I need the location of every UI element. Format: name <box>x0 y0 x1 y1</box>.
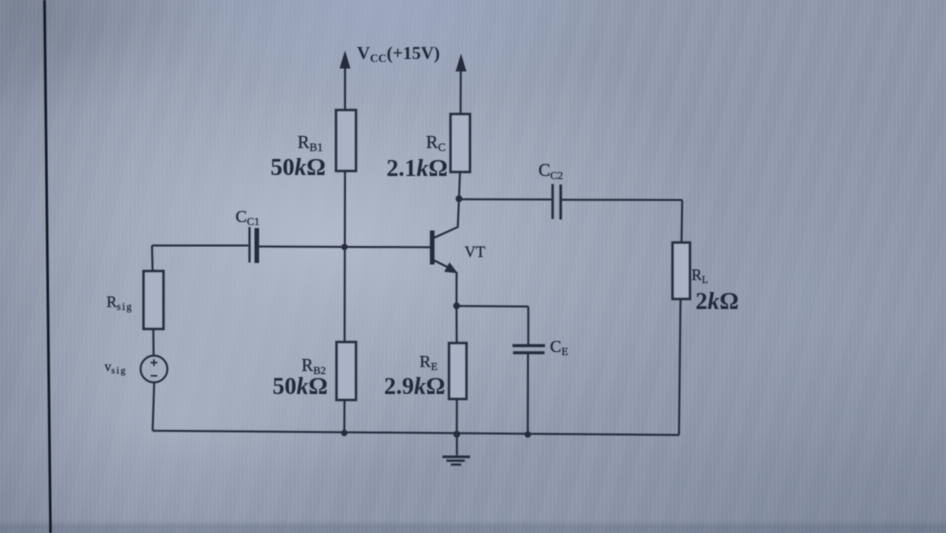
svg-text:RC: RC <box>426 132 446 154</box>
svg-text:vsig: vsig <box>105 359 127 377</box>
svg-text:RL: RL <box>692 267 708 286</box>
svg-text:2.9kΩ: 2.9kΩ <box>384 374 445 400</box>
svg-text:VT: VT <box>465 244 486 261</box>
svg-text:2.1kΩ: 2.1kΩ <box>387 156 448 182</box>
svg-text:RE: RE <box>420 352 438 373</box>
svg-text:Rsig: Rsig <box>107 294 134 313</box>
svg-text:50kΩ: 50kΩ <box>273 374 328 400</box>
svg-text:CC1: CC1 <box>236 207 260 228</box>
svg-text:2kΩ: 2kΩ <box>696 289 739 315</box>
svg-text:VCC(+15V): VCC(+15V) <box>357 43 440 65</box>
svg-text:RB1: RB1 <box>298 132 324 154</box>
svg-text:CC2: CC2 <box>539 160 564 182</box>
svg-text:50kΩ: 50kΩ <box>271 155 326 181</box>
svg-text:CE: CE <box>550 337 568 358</box>
